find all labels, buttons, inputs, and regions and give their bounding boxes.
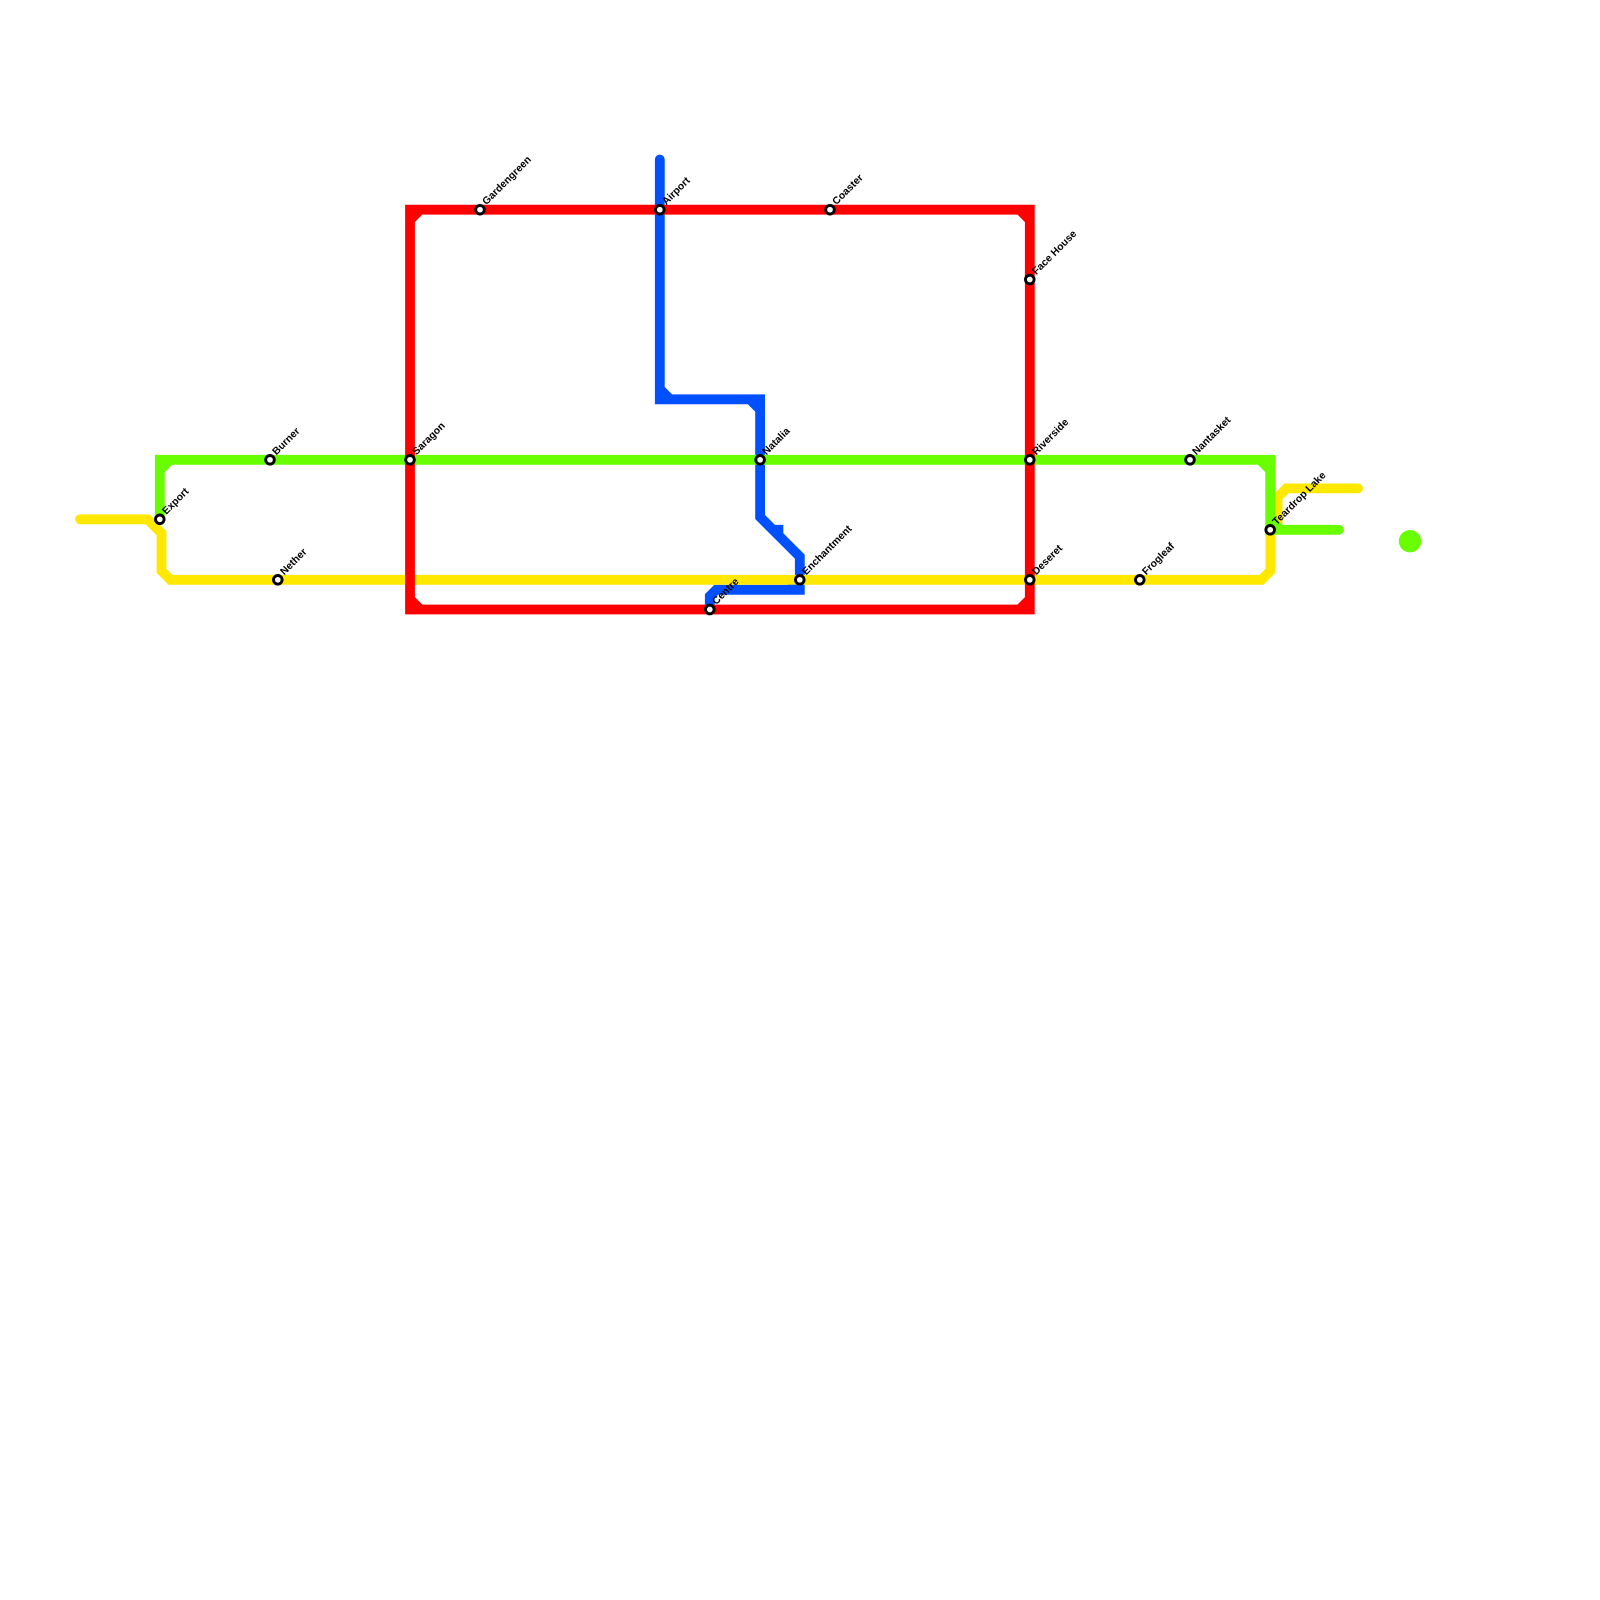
- node Saragon: [406, 456, 415, 465]
- node Export: [156, 515, 165, 524]
- node Teardrop Lake: [1266, 526, 1275, 535]
- svg-text:Gardengreen: Gardengreen: [481, 154, 534, 207]
- green depot dot: [1399, 530, 1421, 552]
- node Airport: [656, 205, 665, 214]
- wire: green corner connector at (1270.2,529.8): [1270, 520, 1280, 530]
- node Gardengreen: [476, 205, 485, 214]
- wire: green corner connector at (159.8,459.8): [160, 460, 170, 470]
- wire: red corner connector top-right: [1020, 210, 1030, 220]
- svg-text:Export: Export: [161, 486, 192, 517]
- svg-text:Riverside: Riverside: [1031, 417, 1072, 458]
- wire: red corner connector top-left: [410, 210, 420, 220]
- wire: blue corner connector at (659.8,399.3): [660, 389, 670, 399]
- svg-text:Frogleaf: Frogleaf: [1141, 541, 1178, 578]
- wire: green line (Export - Teardrop Lake - stub): [160, 460, 1339, 530]
- svg-text:Burner: Burner: [271, 426, 303, 458]
- node Face House: [1026, 275, 1035, 284]
- node Enchantment: [796, 576, 805, 585]
- node Burner: [266, 456, 275, 465]
- svg-text:Enchantment: Enchantment: [801, 523, 855, 577]
- node Nether: [274, 576, 283, 585]
- wire: blue corner connector at (799.8,589.8): [790, 580, 800, 590]
- svg-text:Saragon: Saragon: [411, 421, 448, 458]
- svg-text:Face House: Face House: [1031, 228, 1080, 277]
- wire: red loop line: [410, 210, 1030, 610]
- node Frogleaf: [1136, 576, 1145, 585]
- node Centre: [706, 605, 715, 614]
- svg-text:Deseret: Deseret: [1031, 543, 1066, 578]
- node Coaster: [826, 205, 835, 214]
- node Nantasket: [1186, 456, 1195, 465]
- svg-text:Natalia: Natalia: [761, 426, 793, 458]
- svg-text:Airport: Airport: [661, 175, 693, 207]
- wire: yellow line west branch (Export stub - Nether - break): [80, 488, 1358, 579]
- wire: yellow line east part (break - Deseret - Frogleaf - Teardrop Lake - stub): [412, 488, 1358, 579]
- labels: [161, 154, 1329, 607]
- wire: green corner connector at (1270.2,459.8): [1260, 460, 1270, 470]
- wire: red corner connector bottom-right: [1020, 599, 1030, 609]
- svg-text:Nether: Nether: [279, 547, 310, 578]
- wire: red corner connector bottom-left: [410, 599, 420, 609]
- node Deseret: [1026, 576, 1035, 585]
- svg-text:Nantasket: Nantasket: [1191, 415, 1234, 458]
- wire: blue line (Airport - Centre): [660, 160, 800, 610]
- svg-text:Coaster: Coaster: [831, 173, 866, 208]
- wire: blue corner connector at (760.1,399.3): [750, 399, 760, 409]
- blue bump artifact near (778,530): [773, 525, 783, 537]
- node Natalia: [756, 456, 765, 465]
- node Riverside: [1026, 456, 1035, 465]
- stations: [156, 205, 1275, 613]
